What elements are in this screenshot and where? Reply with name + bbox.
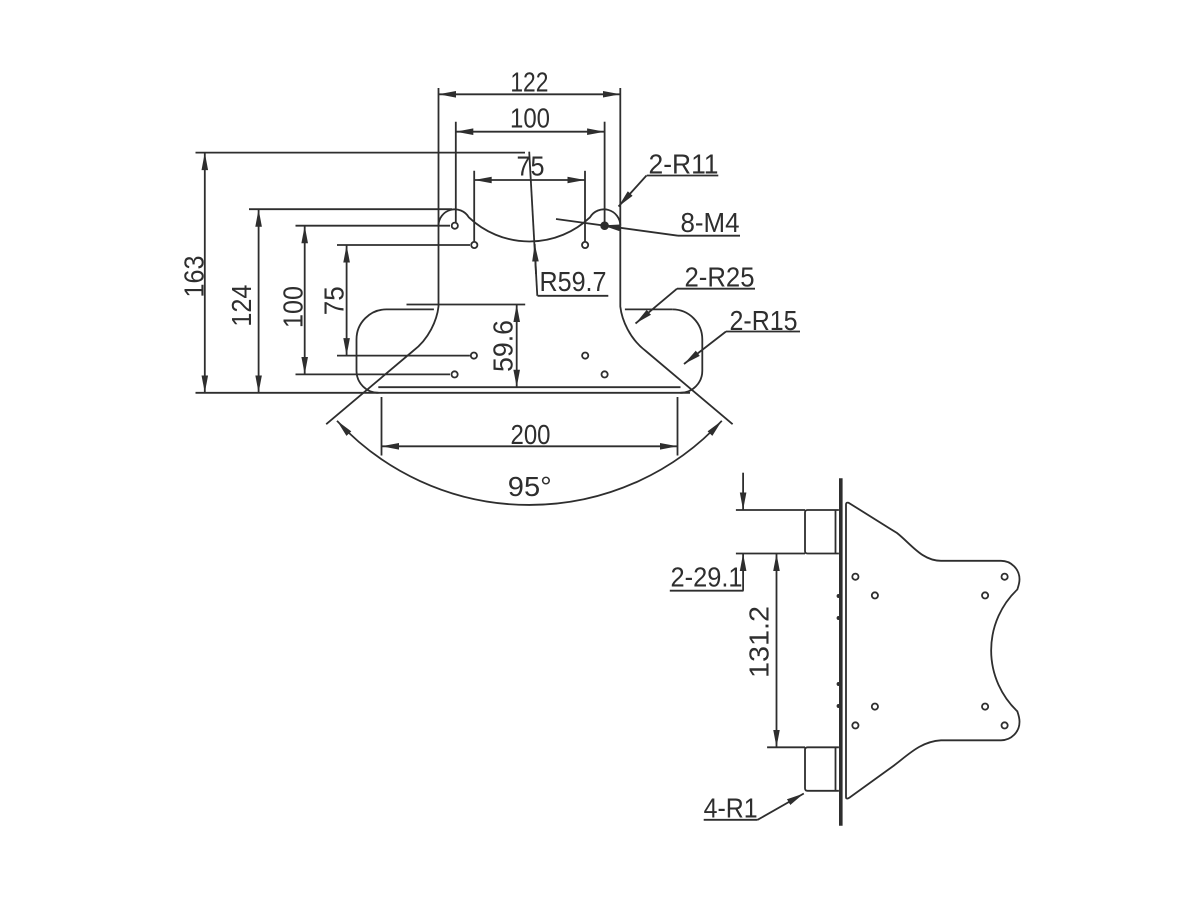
side view hole top-right 75 — [982, 592, 988, 598]
top tab inner fold line — [835, 510, 837, 554]
hole bottom-right 100 pattern — [602, 371, 608, 377]
hole top-right 100 pattern (covered by 8-M4 leader arrowhead) — [601, 222, 608, 229]
svg-text:75: 75 — [319, 286, 350, 315]
plate edge thick line — [839, 478, 843, 825]
svg-text:131.2: 131.2 — [744, 606, 775, 678]
leader 4-R1 — [758, 794, 804, 820]
part outline: right vertical side continuing into fold curve and 95-degree angle line — [620, 226, 732, 425]
edge hole marks on plate line — [837, 594, 841, 598]
hole top-left 100 pattern — [452, 223, 458, 229]
top mounting tab — [805, 510, 839, 554]
svg-text:2-R15: 2-R15 — [730, 305, 798, 336]
leader 8-M4 — [556, 219, 678, 236]
svg-text:95°: 95° — [508, 471, 552, 502]
side view hole top-left 75 — [872, 592, 878, 598]
svg-text:200: 200 — [511, 419, 551, 450]
dimension 2-29.1 — [742, 473, 744, 510]
dimension 59.6 — [516, 305, 518, 388]
side view hole top-left 100 — [852, 574, 858, 580]
leader 2-R25 — [636, 289, 678, 324]
right wing outer edge with R25 and R15 corners — [672, 309, 702, 392]
hole bottom-left 100 pattern — [452, 371, 458, 377]
side view hole bottom-left 75 — [872, 704, 878, 710]
dimension 200 — [382, 445, 678, 447]
svg-text:100: 100 — [510, 102, 550, 133]
svg-text:4-R1: 4-R1 — [704, 793, 758, 824]
dimension 100 vertical — [304, 226, 306, 375]
side view hole bottom-right 100 — [1002, 722, 1008, 728]
dimension 131.2 — [776, 554, 778, 748]
left wing top edge — [387, 308, 434, 310]
dimension 124 — [258, 209, 260, 393]
svg-text:100: 100 — [278, 286, 309, 328]
extension line tab bottom — [736, 553, 805, 555]
svg-text:163: 163 — [179, 256, 210, 298]
dimension 75 vertical — [346, 245, 348, 356]
side view hole bottom-right 75 — [982, 704, 988, 710]
extension line tab top — [736, 509, 805, 511]
bottom mounting tab — [805, 747, 839, 791]
dimension 100 horizontal — [456, 131, 605, 133]
hole bottom-left 75 pattern — [471, 353, 477, 359]
dimension 95 degrees arc — [337, 421, 722, 505]
part outline: top edge with two R11 bumps and R59.7 dip — [438, 209, 620, 241]
leader 2-R15 — [684, 332, 726, 365]
hole bottom-right 75 pattern — [582, 353, 588, 359]
side view hole bottom-left 100 — [852, 722, 858, 728]
svg-text:2-R11: 2-R11 — [649, 148, 719, 179]
hole top-left 75 pattern — [471, 242, 477, 248]
hole top-right 75 pattern — [582, 242, 588, 248]
leader 2-R11 — [619, 176, 647, 207]
svg-text:124: 124 — [226, 285, 257, 327]
svg-text:2-R25: 2-R25 — [685, 261, 755, 292]
wing outline (true shape) — [846, 503, 1020, 799]
base strip top edge — [378, 386, 680, 388]
dimension 163 — [204, 153, 206, 393]
svg-text:2-29.1: 2-29.1 — [671, 561, 743, 592]
base bottom edge merged with extension line of 163/124 — [196, 392, 691, 394]
left wing outer edge with R25 and R15 corners — [357, 309, 387, 392]
svg-text:59.6: 59.6 — [488, 320, 519, 372]
svg-text:8-M4: 8-M4 — [681, 207, 740, 238]
svg-text:R59.7: R59.7 — [540, 266, 607, 297]
svg-text:122: 122 — [510, 67, 548, 98]
right wing top edge — [625, 308, 672, 310]
side view hole top-right 100 — [1002, 574, 1008, 580]
dimension 75 horizontal — [474, 179, 585, 181]
part outline: left vertical side continuing into fold curve and 95-degree angle line — [326, 226, 438, 425]
radius dimension R59.7 leader through 75 text — [529, 152, 537, 296]
bottom tab inner fold line — [835, 747, 837, 791]
dimension 122 — [439, 93, 621, 95]
extension line lower tab top — [767, 746, 805, 748]
